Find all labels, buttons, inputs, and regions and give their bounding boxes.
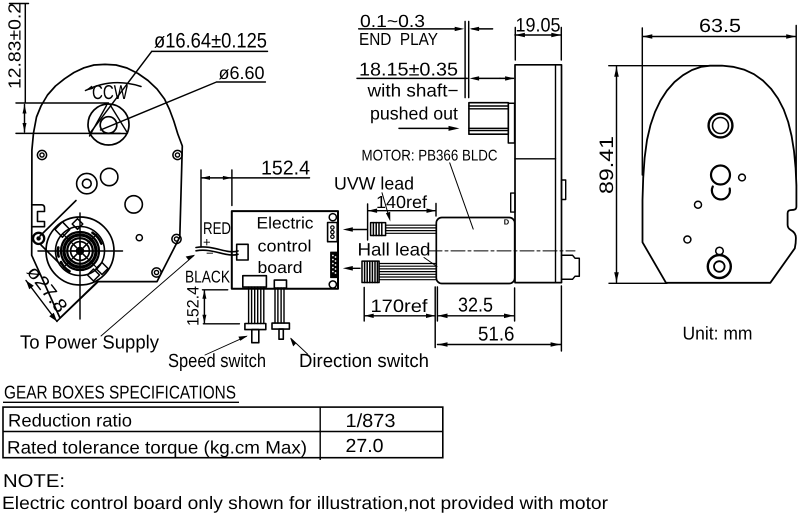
svg-text:19.05: 19.05 — [516, 15, 561, 37]
Hall wires — [379, 264, 436, 280]
Hall connector on board — [331, 252, 338, 277]
hole right-mid — [172, 234, 181, 243]
speed pins — [249, 287, 264, 323]
svg-text:51.6: 51.6 — [478, 324, 515, 346]
side body seam — [515, 158, 556, 160]
back middle circle — [711, 166, 730, 185]
UVW connector on board — [328, 223, 338, 242]
svg-text:12.83±0.2: 12.83±0.2 — [5, 3, 25, 89]
board hole bottom — [329, 281, 336, 288]
right tab — [562, 180, 566, 200]
dim 32.5 lines — [438, 288, 515, 321]
svg-text:152.4: 152.4 — [261, 158, 310, 180]
hole top-right — [173, 150, 182, 159]
svg-text:MOTOR: PB366 BLDC: MOTOR: PB366 BLDC — [362, 148, 498, 165]
motor rings thick — [61, 232, 99, 270]
svg-text:Speed switch: Speed switch — [168, 351, 266, 372]
diagonal cross — [64, 235, 97, 268]
board hole top — [329, 214, 336, 221]
crosshair centerlines — [38, 213, 123, 319]
svg-text:Rated tolerance torque (kg.cm: Rated tolerance torque (kg.cm Max) — [7, 438, 307, 458]
dim 19.05 line+arrows — [515, 28, 561, 61]
back small circle right — [739, 174, 746, 181]
dim ø27.8 line — [26, 281, 57, 322]
svg-text:1/873: 1/873 — [346, 411, 396, 432]
dim 18.15 line+arrows — [357, 77, 500, 79]
shaft collar — [508, 103, 514, 143]
motor body — [436, 218, 514, 284]
dim 12.83 lines — [10, 4, 121, 134]
back small circle lower-left — [684, 236, 691, 243]
pushed out arrow — [399, 127, 448, 129]
power wire terminal on board — [237, 244, 248, 260]
svg-text:END PLAY: END PLAY — [359, 29, 438, 49]
table frame — [3, 407, 443, 458]
double ring hole mid-left — [77, 173, 97, 193]
D-shaft profile — [90, 106, 128, 137]
svg-text:NOTE:: NOTE: — [3, 470, 65, 491]
MOTOR leader — [450, 163, 474, 229]
svg-text:ø6.60: ø6.60 — [219, 63, 265, 83]
UVW motor connector — [371, 223, 386, 236]
To Power Supply leader — [101, 256, 194, 337]
svg-text:Electric control board only sh: Electric control board only shown for il… — [2, 493, 608, 513]
dim 152.4 vertical arrows — [202, 290, 206, 324]
UVW wires — [386, 225, 436, 233]
table column divider — [319, 407, 321, 460]
dash arcs on flange — [93, 233, 102, 244]
gearbox front view outline — [32, 64, 183, 318]
dim 152.4 arrows — [201, 176, 232, 180]
svg-text:board: board — [258, 259, 303, 277]
svg-text:152.4: 152.4 — [185, 286, 203, 326]
dim 12.83 arrows — [23, 105, 27, 133]
circle hole center — [125, 196, 142, 213]
CCW rotation arrow arc — [86, 83, 142, 91]
svg-text:control: control — [258, 237, 312, 255]
svg-text:89.41: 89.41 — [596, 136, 618, 194]
speed switch leader — [205, 336, 247, 355]
speed connector on board — [243, 276, 267, 287]
svg-text:ø16.64±0.125: ø16.64±0.125 — [154, 30, 267, 53]
direction switch leader — [291, 339, 308, 355]
ear diamond SE2 — [96, 263, 108, 275]
table row divider — [3, 431, 443, 433]
direction pins — [275, 288, 284, 323]
output shaft — [469, 103, 508, 135]
hole bottom-right — [152, 268, 161, 277]
speed switch plug — [245, 324, 266, 330]
back crescent — [712, 187, 730, 200]
rear shaft stub — [562, 255, 580, 279]
direction connector on board — [274, 280, 286, 288]
dim 152.4 horizontal lines — [201, 170, 310, 247]
Hall arrow to board — [347, 267, 360, 269]
title underline — [3, 401, 239, 403]
svg-text:Reduction ratio: Reduction ratio — [8, 411, 132, 431]
svg-text:140ref: 140ref — [376, 192, 427, 212]
hub spokes — [71, 242, 90, 261]
ear diamond NW — [55, 222, 70, 237]
dim 0.1~0.3 line+arrows — [359, 28, 493, 30]
svg-text:D: D — [504, 218, 510, 227]
back view outline — [643, 66, 797, 283]
circle hole mid — [101, 168, 118, 185]
small hole — [136, 235, 142, 241]
motor hub — [76, 247, 84, 255]
control board rect — [232, 211, 338, 289]
diamond plate SW edge — [41, 245, 60, 264]
gearbox side body — [515, 65, 562, 283]
power wires — [196, 247, 238, 255]
shaft bore circle (ø6.60) — [100, 117, 117, 134]
diamond plate NW edge — [40, 201, 76, 237]
UVW leader — [382, 193, 389, 218]
svg-text:CCW: CCW — [92, 82, 128, 104]
bolt hole diamond corner — [33, 233, 44, 244]
svg-text:GEAR BOXES SPECIFICATIONS: GEAR BOXES SPECIFICATIONS — [4, 381, 236, 402]
svg-text:32.5: 32.5 — [458, 295, 493, 317]
Hall motor connector — [362, 261, 379, 282]
svg-text:Electric: Electric — [257, 215, 314, 233]
dim 140ref lines — [368, 204, 436, 241]
svg-text:To Power Supply: To Power Supply — [20, 333, 159, 354]
svg-text:BLACK: BLACK — [185, 268, 231, 287]
svg-text:0.1~0.3: 0.1~0.3 — [360, 11, 425, 31]
dim ø27.8 ext line — [57, 282, 98, 322]
back bottom tiny circle — [716, 247, 724, 255]
ear diamond SE1 — [88, 269, 100, 281]
dim 89.41 line — [609, 66, 718, 284]
svg-text:170ref: 170ref — [371, 296, 429, 316]
svg-text:Direction switch: Direction switch — [299, 351, 429, 372]
back small circle mid-left — [695, 201, 702, 208]
ear diamond N — [72, 219, 83, 230]
svg-text:UVW lead: UVW lead — [334, 174, 414, 194]
shaft boss circle (ø16.64) — [88, 104, 129, 145]
svg-text:pushed out: pushed out — [370, 104, 458, 124]
left notch — [511, 193, 515, 212]
UVW arrow to board — [347, 229, 367, 231]
hole top-left — [37, 150, 46, 159]
dim 152.4 vertical lines — [203, 290, 240, 324]
dim 51.6 lines — [438, 286, 562, 351]
clip hook on left edge — [32, 205, 45, 227]
dim 170ref lines — [364, 287, 437, 348]
svg-text:27.0: 27.0 — [346, 436, 384, 457]
svg-text:63.5: 63.5 — [699, 16, 741, 37]
center line — [428, 250, 575, 252]
motor mount circle 2 — [56, 227, 105, 276]
back bottom ring — [708, 255, 731, 278]
direction switch plug — [272, 323, 289, 329]
svg-text:Hall lead: Hall lead — [358, 240, 431, 260]
dim 63.5 lines — [642, 26, 796, 187]
back top ring — [709, 114, 733, 138]
side body inner edge line — [555, 65, 557, 283]
Hall leader — [424, 258, 437, 267]
svg-text:with shaft−: with shaft− — [366, 81, 458, 101]
svg-text:Unit: mm: Unit: mm — [683, 323, 753, 344]
svg-text:18.15±0.35: 18.15±0.35 — [359, 59, 458, 80]
end play gap lines — [465, 22, 469, 98]
motor mount outer circle — [46, 217, 114, 285]
